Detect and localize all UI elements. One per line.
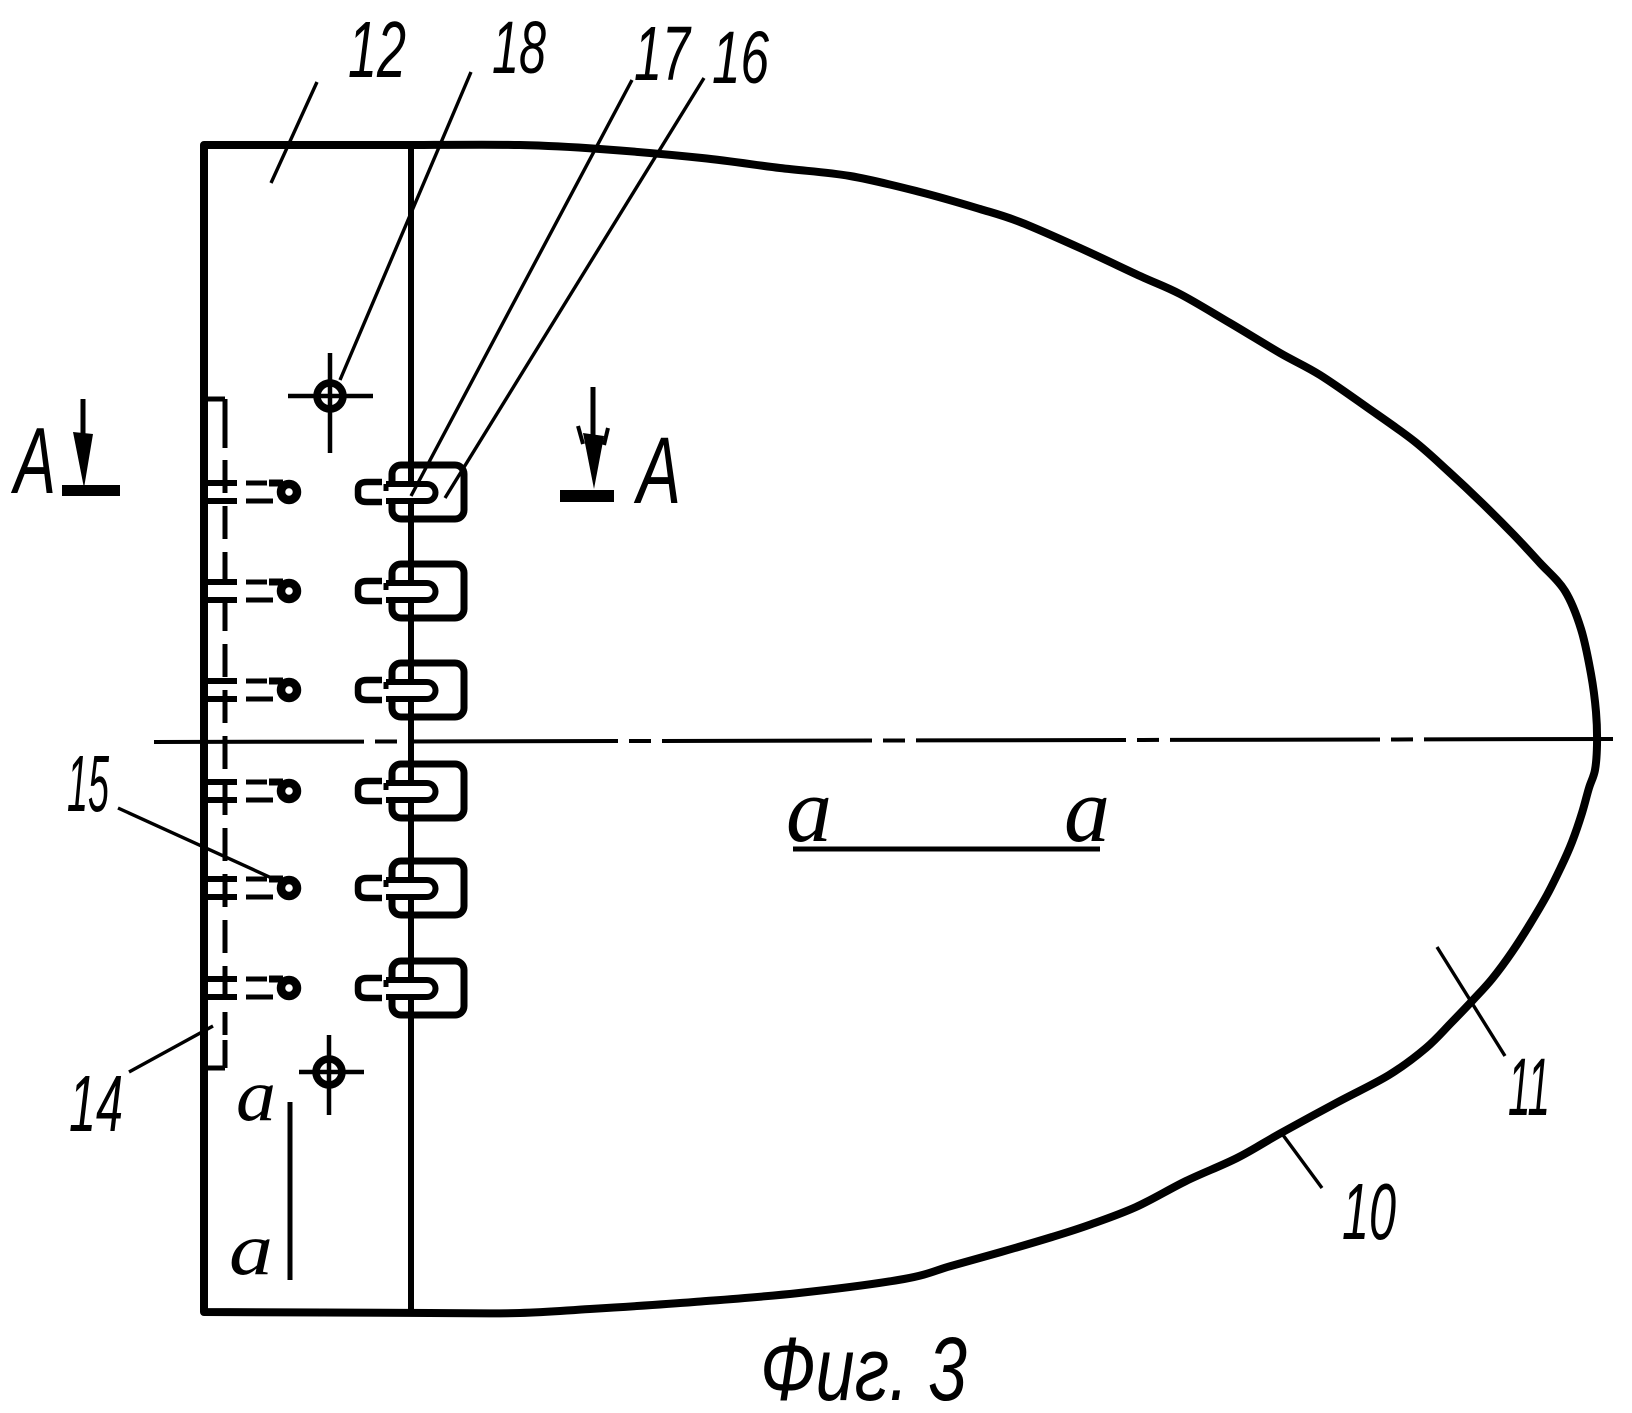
leader line 14	[129, 1026, 213, 1072]
tongue 17 row 5 slot	[386, 880, 436, 897]
tongue 17 row 6 slot	[386, 980, 436, 997]
pin 15 row 3 eyelet	[281, 682, 297, 698]
pin 15 row 3 dashed lines	[203, 678, 237, 684]
pin 15 row 2 dashed lines	[203, 579, 237, 585]
pin 15 row 1 dashed lines	[203, 480, 237, 486]
slot 14 bottom corner	[203, 1066, 225, 1071]
pin 15 row 6 eyelet	[281, 980, 297, 996]
svg-text:14: 14	[69, 1059, 123, 1148]
leader line 11	[1437, 947, 1505, 1056]
svg-text:a: a	[1064, 759, 1110, 861]
pin 15 row 4 eyelet	[281, 783, 297, 799]
tongue 17 row 3 slot	[386, 682, 436, 699]
slot 14 top corner	[203, 397, 225, 402]
svg-text:a: a	[229, 1209, 273, 1291]
svg-text:a: a	[236, 1055, 276, 1137]
tongue 17 row 1 slot	[386, 484, 436, 501]
svg-text:17: 17	[634, 11, 692, 97]
rivet hole 18 upper crosshair	[317, 383, 343, 409]
svg-text:11: 11	[1508, 1042, 1550, 1133]
spring clip row 5 C-shape	[358, 878, 382, 898]
section a-a underline	[793, 847, 1100, 852]
pin 15 row 1 eyelet	[281, 484, 297, 500]
butt plate 12 divider line	[408, 145, 414, 1312]
svg-text:12: 12	[348, 5, 406, 94]
svg-text:18: 18	[492, 6, 546, 89]
pin 15 row 4 dashed lines	[203, 779, 237, 785]
blade body 10 outline	[204, 145, 1597, 1314]
svg-text:16: 16	[712, 16, 770, 99]
leader line 17	[411, 80, 632, 496]
pin 15 row 2 eyelet	[281, 583, 297, 599]
clip 16 row 1 body	[392, 465, 464, 519]
clip 16 row 2 body	[392, 564, 464, 618]
svg-text:a: a	[786, 759, 832, 861]
svg-text:10: 10	[1342, 1167, 1396, 1256]
svg-text:A: A	[634, 418, 681, 524]
centre axis dash-dot line	[154, 739, 1613, 742]
pin 15 row 6 dashed lines	[203, 976, 237, 982]
spring clip row 4 C-shape	[358, 781, 382, 801]
clip 16 row 3 body	[392, 663, 464, 717]
clip 16 row 6 body	[392, 961, 464, 1015]
section a-a vertical line	[288, 1102, 293, 1280]
pin 15 row 5 eyelet	[281, 880, 297, 896]
pin 15 row 5 dashed lines	[203, 876, 237, 882]
leader line 10	[1280, 1131, 1322, 1188]
spring clip row 2 C-shape	[358, 581, 382, 601]
leader line 15	[118, 808, 276, 880]
clip 16 row 4 body	[392, 764, 464, 818]
spring clip row 6 C-shape	[358, 978, 382, 998]
svg-text:Фиг. 3: Фиг. 3	[760, 1320, 967, 1413]
slot 14 dashed vertical	[223, 399, 228, 448]
svg-text:15: 15	[67, 739, 109, 828]
divider line over clips	[408, 460, 414, 1020]
tongue 17 row 2 slot	[386, 583, 436, 600]
spring clip row 3 C-shape	[358, 680, 382, 700]
leader line 18	[340, 72, 471, 380]
section arrow A right	[591, 387, 596, 452]
svg-text:A: A	[11, 408, 56, 513]
leader line 16	[445, 78, 704, 498]
leader line 12	[271, 82, 317, 183]
clip 16 row 5 body	[392, 861, 464, 915]
section arrow A left	[81, 399, 86, 452]
spring clip row 1 C-shape	[358, 482, 382, 502]
tongue 17 row 4 slot	[386, 783, 436, 800]
rivet hole lower crosshair	[316, 1059, 342, 1085]
